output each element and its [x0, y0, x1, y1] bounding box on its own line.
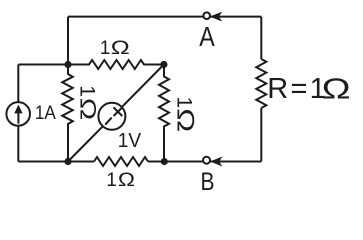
- svg-text:Ω: Ω: [75, 98, 100, 121]
- resistor bottom 1 ohm (horizontal between N3 and N4): [94, 157, 148, 166]
- svg-text:1A: 1A: [35, 103, 56, 124]
- svg-text:B: B: [201, 168, 215, 195]
- current source I1 arrowhead: [14, 105, 22, 114]
- wire: left vertical branch through current source: [17, 65, 19, 162]
- svg-text:1: 1: [173, 97, 196, 109]
- wire: diagonal N3 to N2 through voltage source: [68, 65, 164, 162]
- voltage source V1 circle: [98, 103, 125, 130]
- voltage source V1 plus sign (rotated 45): [114, 107, 123, 116]
- label left resistor 1 ohm (rotated): [75, 85, 100, 120]
- node N1 junction dot: [64, 61, 71, 68]
- resistor right 1 ohm (vertical between N2 and N4): [159, 65, 169, 162]
- svg-text:1: 1: [106, 170, 117, 191]
- arrowhead at terminal B (pointing left): [211, 158, 221, 166]
- arrowhead at terminal A (pointing left): [211, 13, 221, 21]
- current source I1 arrow shaft: [17, 112, 19, 124]
- wire: right vertical upper segment (corner to R): [260, 17, 262, 59]
- terminal B open circle: [203, 157, 210, 164]
- resistor left 1 ohm (vertical between N1 and N3): [62, 65, 73, 162]
- svg-text:1: 1: [100, 38, 111, 59]
- wire: bottom right segment from resistor to right corner: [148, 161, 261, 163]
- wire: bottom left segment to node N3: [18, 161, 94, 163]
- svg-text:1: 1: [75, 85, 98, 97]
- terminal A open circle: [203, 12, 210, 19]
- svg-text:Ω: Ω: [172, 108, 199, 132]
- resistor R (right side vertical): [256, 59, 266, 108]
- node N3 junction dot: [64, 158, 71, 165]
- svg-text:A: A: [199, 21, 215, 52]
- resistor top 1 ohm (horizontal between N1 and N2): [68, 60, 164, 69]
- voltage source V1 minus sign (rotated 45): [105, 118, 112, 125]
- svg-text:Ω: Ω: [322, 74, 351, 106]
- svg-text:Ω: Ω: [111, 38, 130, 59]
- wire: top-left vertical drop to node N1: [67, 17, 69, 65]
- node N2 junction dot: [160, 61, 167, 68]
- label right resistor 1 ohm (rotated): [172, 97, 199, 133]
- wire: left horizontal from current-source branch to node N1: [18, 64, 68, 66]
- svg-text:Ω: Ω: [118, 170, 135, 191]
- node N4 junction dot: [161, 158, 168, 165]
- wire: top horizontal (node above bridge to right corner): [68, 16, 261, 18]
- wire: right vertical lower segment (R to bottom corner): [260, 108, 262, 162]
- svg-text:R = 1: R = 1: [267, 73, 326, 105]
- current source I1 circle: [6, 102, 30, 126]
- svg-text:1V: 1V: [118, 130, 142, 152]
